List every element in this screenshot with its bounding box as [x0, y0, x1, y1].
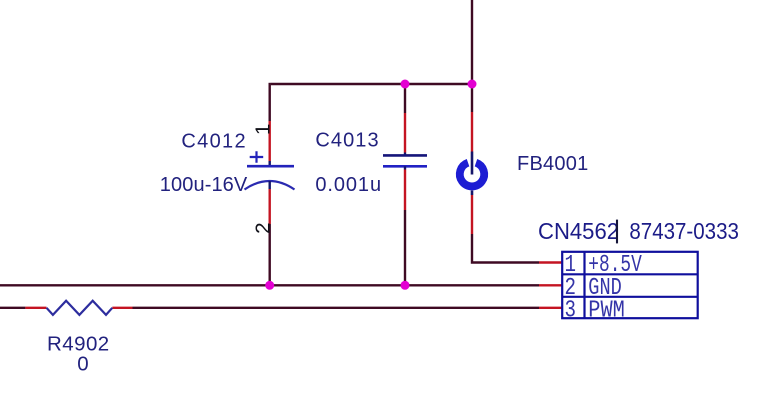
connector CN4562 body table — [562, 252, 698, 318]
capacitor C4012 symbol — [245, 151, 295, 189]
svg-text:FB4001: FB4001 — [517, 153, 589, 175]
junction dot at C4013 bottom — [401, 281, 410, 290]
svg-text:1: 1 — [252, 124, 275, 135]
pin C4012 pin1 stub — [269, 121, 271, 161]
svg-text:CN4562: CN4562 — [538, 218, 619, 244]
svg-text:3: 3 — [565, 297, 577, 324]
pin FB4001 lower stub — [471, 195, 473, 234]
pin CN4562 pin2 stub — [539, 284, 562, 286]
pin CN4562 pin1 stub — [539, 261, 562, 263]
wire C4013 branch upper — [404, 84, 406, 113]
svg-text:87437-0333: 87437-0333 — [629, 218, 739, 244]
wire GND net horizontal — [0, 284, 539, 286]
wire FB4001 branch upper — [471, 84, 473, 112]
wire C4012 branch lower — [269, 224, 271, 285]
wire C4013 branch lower — [404, 210, 406, 285]
junction dot at FB4001 top — [468, 80, 477, 89]
svg-text:100u-16V: 100u-16V — [160, 174, 248, 196]
svg-text:C4012: C4012 — [181, 131, 246, 153]
svg-text:2: 2 — [252, 222, 275, 233]
pin C4013 upper stub — [404, 113, 406, 153]
svg-text:C4013: C4013 — [315, 129, 379, 151]
ferrite bead FB4001 symbol — [460, 152, 484, 196]
pin FB4001 upper stub — [471, 112, 473, 152]
svg-text:0.001u: 0.001u — [315, 174, 382, 196]
wire vertical top feed — [471, 0, 473, 84]
svg-text:0: 0 — [77, 352, 88, 375]
pin C4013 lower stub — [404, 170, 406, 211]
pin C4012 pin2 stub — [269, 189, 271, 224]
pin R4902 left stub — [25, 307, 46, 309]
capacitor C4013 symbol — [383, 153, 427, 170]
wire top horizontal bus — [271, 83, 472, 85]
pin CN4562 pin3 stub — [539, 307, 562, 309]
wire C4012 branch upper — [269, 83, 271, 121]
svg-text:PWM: PWM — [588, 297, 625, 324]
wire PWM net right segment — [133, 307, 540, 309]
text cursor bar — [616, 220, 618, 244]
wire PWM net left segment — [0, 307, 25, 309]
junction dot at C4013 top — [401, 80, 410, 89]
wire FB4001 branch lower + run to connector pin 1 — [472, 234, 539, 263]
pin R4902 right stub — [112, 307, 132, 309]
junction dot at C4012 bottom — [265, 281, 274, 290]
resistor R4902 symbol — [47, 301, 113, 315]
